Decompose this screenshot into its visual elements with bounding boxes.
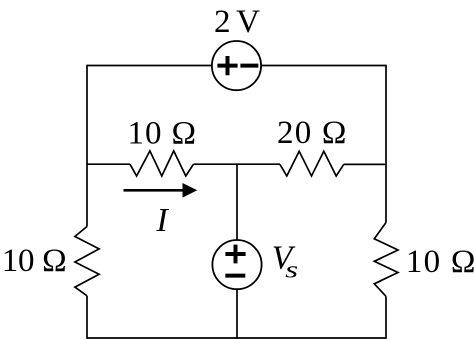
wire middle-vertical top (T junction to Vs source)	[236, 163, 238, 240]
wire right-bottom (right resistor to bottom-right corner)	[385, 296, 387, 339]
wire top-right (2V source to top-right corner)	[261, 65, 386, 67]
voltage source Vs	[212, 240, 261, 289]
svg-text:20 Ω: 20 Ω	[277, 115, 347, 151]
resistor 10Ω left	[75, 227, 99, 296]
wire top-left (top node to 2V source)	[87, 65, 212, 67]
svg-text:10 Ω: 10 Ω	[406, 244, 474, 280]
wire middle-vertical bottom (Vs source to bottom wire)	[236, 289, 238, 339]
current arrow I	[124, 183, 198, 198]
resistor 20Ω	[280, 151, 344, 176]
label Vs	[272, 240, 298, 284]
label I	[155, 202, 169, 239]
wire bottom	[87, 337, 386, 339]
wire middle-center (10Ω to 20Ω resistor)	[194, 163, 281, 165]
wire middle-left (left wire to 10Ω resistor)	[87, 163, 130, 165]
wire middle-right (20Ω to right wire)	[344, 163, 386, 165]
label 10 Ω middle	[128, 116, 197, 152]
resistor 10Ω middle	[130, 151, 194, 176]
label 10 Ω left	[2, 243, 67, 279]
svg-text:2 V: 2 V	[214, 4, 260, 40]
svg-text:I: I	[155, 202, 169, 239]
label 20 Ω	[277, 115, 347, 151]
label 2 V	[214, 4, 260, 40]
wire left (top-left corner down to left resistor)	[86, 65, 88, 227]
svg-text:10 Ω: 10 Ω	[2, 243, 67, 279]
wire right (top-right corner down to right resistor)	[385, 65, 387, 223]
wire left-bottom (left resistor to bottom-left corner)	[86, 296, 88, 339]
resistor 10Ω right	[374, 223, 398, 297]
voltage source 2V	[212, 41, 261, 90]
label 10 Ω right	[406, 244, 474, 280]
svg-text:10 Ω: 10 Ω	[128, 116, 197, 152]
svg-text:s: s	[285, 257, 298, 283]
